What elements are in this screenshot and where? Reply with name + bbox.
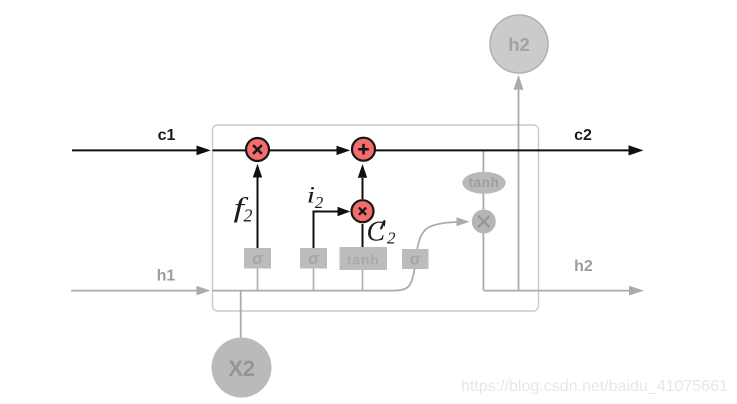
arrowhead: h2 output [629, 286, 644, 296]
arrowhead: c1 into cell [197, 146, 211, 156]
node: h2 circle top [490, 15, 548, 73]
wire: h2 output line [483, 290, 629, 292]
svg-text:https://blog.csdn.net/baidu_41: https://blog.csdn.net/baidu_41075661 [461, 378, 728, 395]
gate sigma2 [300, 248, 327, 269]
wire: h1 input line (gray, left) [71, 290, 197, 292]
wire: curve from sigma4 gate to gray multiply [417, 222, 456, 249]
wire: i2 path from sigma2 gate to multiply2 [314, 212, 338, 249]
node: red multiply 1 [246, 138, 269, 161]
wire: h line inside cell curving up into sigma4 gate [213, 269, 415, 291]
arrowhead: c2 output [629, 145, 644, 155]
label f2 (forget gate) [234, 193, 249, 223]
wire: c1 input line (black) [72, 149, 197, 151]
svg-text:2: 2 [387, 228, 396, 247]
svg-text:tanh: tanh [469, 175, 500, 190]
gate sigma4 [402, 249, 429, 269]
arrowhead: into add node from below [358, 164, 367, 178]
arrowhead: into multiply2 from left [338, 207, 351, 216]
wire: sigma1 gate up to multiply node [257, 178, 259, 249]
wire: stub sigma1 gate down to h line [257, 269, 259, 290]
svg-text:2: 2 [315, 193, 324, 212]
wire: stub sigma2 gate down to h line [313, 269, 315, 290]
arrowhead: into multiply node [253, 164, 262, 178]
node: X2 circle bottom [212, 338, 272, 398]
arrowhead: up into h2 node [514, 75, 524, 90]
wire: multiply2 up to add node [362, 178, 364, 199]
wire: stub tanh gate down to h line [362, 270, 364, 290]
svg-text:σ: σ [308, 250, 319, 268]
svg-text:h2: h2 [574, 258, 593, 275]
svg-text:σ: σ [410, 251, 421, 269]
wire: c line out of cell [376, 149, 629, 151]
gate tanh [340, 247, 388, 270]
svg-text:c2: c2 [574, 127, 592, 144]
svg-text:tanh: tanh [347, 251, 380, 267]
svg-text:h2: h2 [508, 34, 530, 55]
wire: tanh gate up to multiply2 [362, 224, 364, 248]
node: tanh ellipse [462, 172, 505, 194]
wire: c line inside cell [213, 149, 337, 151]
node: red multiply 2 [352, 200, 374, 222]
svg-text:c1: c1 [158, 127, 176, 144]
gate sigma1 [244, 248, 271, 269]
node: red add [352, 138, 375, 161]
svg-text:C: C [367, 217, 386, 248]
arrowhead: h1 into cell [197, 286, 211, 295]
node: gray multiply [472, 210, 496, 234]
arrowhead: into gray multiply [457, 217, 470, 226]
wire: h2 line up to h2 node [518, 90, 520, 291]
svg-text:h1: h1 [157, 268, 176, 285]
svg-text:2: 2 [244, 206, 253, 226]
svg-text:σ: σ [252, 250, 263, 268]
cell box (LSTM cell outline) [213, 125, 539, 311]
wire: X2 input stub [240, 291, 242, 339]
svg-text:X2: X2 [228, 356, 254, 381]
label i2 (input gate) [307, 182, 315, 208]
wire: branch from c line down through tanh ellipse to multiply [482, 151, 484, 290]
arrowhead: into add node [337, 146, 351, 155]
